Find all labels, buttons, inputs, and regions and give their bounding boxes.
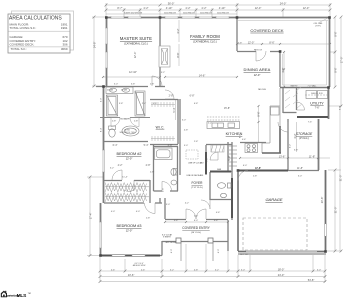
svg-text:STORAGE: STORAGE (296, 132, 313, 136)
svg-text:5'-6": 5'-6" (163, 188, 165, 193)
svg-text:4'-2": 4'-2" (185, 202, 190, 204)
svg-text:8'-6": 8'-6" (257, 111, 261, 116)
svg-text:6'-8": 6'-8" (194, 103, 199, 105)
svg-text:(CATHEDRAL CLG.): (CATHEDRAL CLG.) (124, 41, 148, 45)
svg-text:12'-0": 12'-0" (255, 6, 262, 10)
svg-text:2'-8": 2'-8" (146, 164, 151, 167)
svg-text:5'-0": 5'-0" (194, 215, 199, 217)
svg-text:6'-0": 6'-0" (194, 220, 199, 222)
svg-text:3069: 3069 (61, 47, 68, 51)
svg-text:4'-10": 4'-10" (166, 6, 173, 10)
svg-text:8'-6": 8'-6" (334, 67, 338, 72)
svg-text:36'-0": 36'-0" (168, 1, 175, 5)
svg-text:4'-10": 4'-10" (219, 6, 226, 10)
svg-text:LINE OF CLG ABV.: LINE OF CLG ABV. (188, 162, 204, 165)
svg-text:AREA CALCULATIONS: AREA CALCULATIONS (9, 16, 62, 22)
svg-text:14'-6": 14'-6" (199, 73, 206, 77)
svg-text:1991: 1991 (61, 26, 68, 30)
svg-text:5'-8": 5'-8" (294, 149, 299, 151)
svg-text:(10' CLG.): (10' CLG.) (191, 232, 201, 234)
svg-text:PAN 2480: PAN 2480 (258, 88, 266, 91)
svg-text:5'-2": 5'-2" (215, 269, 220, 271)
svg-text:3'-0": 3'-0" (298, 175, 303, 177)
svg-text:6'-0": 6'-0" (243, 165, 248, 167)
svg-text:5'-0": 5'-0" (184, 145, 189, 147)
svg-text:MLS: MLS (17, 293, 28, 299)
svg-text:9'-4": 9'-4" (340, 106, 342, 111)
svg-text:FOYER: FOYER (192, 181, 204, 185)
svg-text:3'-2": 3'-2" (161, 72, 166, 74)
svg-text:4'-6": 4'-6" (111, 269, 116, 271)
svg-text:3'-0": 3'-0" (317, 269, 322, 271)
svg-text:W.I.C.: W.I.C. (156, 126, 165, 130)
svg-text:3'-2": 3'-2" (110, 167, 115, 169)
svg-text:13'-6": 13'-6" (128, 273, 135, 277)
svg-text:11'-4": 11'-4" (122, 176, 128, 178)
svg-text:12'-0": 12'-0" (254, 73, 261, 77)
svg-text:4'-6": 4'-6" (216, 212, 221, 214)
svg-text:DINING AREA: DINING AREA (244, 67, 271, 72)
svg-text:31'-0": 31'-0" (334, 207, 338, 214)
svg-text:LINE OF DECK ABV.: LINE OF DECK ABV. (187, 174, 204, 177)
svg-text:11'-8": 11'-8" (297, 167, 303, 170)
svg-text:2'-8": 2'-8" (168, 144, 173, 147)
svg-text:3050 WINDOW: 3050 WINDOW (183, 12, 195, 14)
svg-text:2'-8": 2'-8" (253, 175, 258, 177)
svg-text:15'-8": 15'-8" (224, 107, 230, 110)
svg-text:8'-0": 8'-0" (240, 134, 242, 139)
svg-text:6'-8": 6'-8" (190, 94, 195, 97)
svg-text:12'-0": 12'-0" (126, 229, 133, 233)
svg-text:4'-6": 4'-6" (281, 67, 285, 72)
svg-text:17'-8": 17'-8" (255, 167, 261, 170)
svg-text:(CATHEDRAL CLG.): (CATHEDRAL CLG.) (193, 39, 217, 43)
svg-text:3050 WINDOW: 3050 WINDOW (164, 12, 176, 14)
svg-text:16'-7" DR: 16'-7" DR (240, 254, 248, 256)
svg-text:12'-4": 12'-4" (133, 52, 137, 59)
svg-text:SLIDER 3050 WINDOW: SLIDER 3050 WINDOW (124, 12, 143, 14)
svg-text:8'-7": 8'-7" (117, 6, 122, 10)
svg-text:2'-8": 2'-8" (150, 83, 155, 85)
svg-text:306: 306 (62, 42, 67, 46)
svg-text:18'-0": 18'-0" (278, 267, 285, 271)
svg-text:4'-0": 4'-0" (218, 249, 220, 254)
svg-text:13'-6": 13'-6" (279, 154, 286, 158)
svg-text:2'-8": 2'-8" (112, 120, 117, 122)
svg-text:4'-0": 4'-0" (111, 211, 116, 213)
svg-text:5'-0": 5'-0" (153, 103, 158, 105)
svg-text:ANGLED WDW: ANGLED WDW (133, 264, 146, 267)
svg-text:(7'-8" CLG.): (7'-8" CLG.) (191, 187, 203, 189)
svg-text:6'-4": 6'-4" (113, 144, 118, 147)
svg-text:4'-8": 4'-8" (194, 269, 199, 271)
svg-text:UTILITY: UTILITY (310, 101, 324, 105)
svg-text:31'-0": 31'-0" (339, 175, 343, 182)
svg-text:(9' CLG.): (9' CLG.) (299, 137, 309, 140)
svg-text:3050 WINDOW: 3050 WINDOW (200, 12, 212, 14)
svg-text:5'-4": 5'-4" (172, 107, 176, 112)
svg-text:5068: 5068 (217, 169, 221, 171)
svg-text:3'-0": 3'-0" (166, 204, 171, 206)
svg-text:5'-2": 5'-2" (170, 269, 175, 271)
svg-text:24'-0": 24'-0" (278, 273, 285, 277)
svg-text:5'-8": 5'-8" (131, 83, 136, 85)
svg-text:4'-0": 4'-0" (171, 249, 173, 254)
svg-text:6'-2": 6'-2" (290, 144, 292, 149)
svg-text:4'-2": 4'-2" (143, 6, 148, 10)
svg-text:TOTAL S.F.:: TOTAL S.F.: (11, 47, 27, 51)
svg-text:M. BATH: M. BATH (121, 117, 130, 120)
svg-text:2'-8": 2'-8" (150, 171, 155, 173)
svg-text:3050 WINDOW: 3050 WINDOW (217, 12, 229, 14)
svg-text:8'-6": 8'-6" (269, 40, 274, 44)
svg-text:8'-6": 8'-6" (334, 31, 338, 36)
svg-text:4'-6": 4'-6" (141, 269, 146, 271)
svg-text:3'-0": 3'-0" (182, 119, 187, 121)
svg-text:4'-8": 4'-8" (238, 42, 243, 44)
svg-text:17'-4": 17'-4" (89, 213, 93, 220)
svg-text:4'-2": 4'-2" (176, 28, 180, 33)
svg-text:2'-4": 2'-4" (142, 103, 147, 105)
svg-text:4'-0": 4'-0" (136, 211, 141, 213)
svg-text:TOTAL LIVING S.F.:: TOTAL LIVING S.F.: (10, 26, 37, 30)
svg-text:BEDROOM #2: BEDROOM #2 (117, 152, 142, 156)
svg-text:TM: TM (28, 293, 31, 295)
svg-text:(TYP.): (TYP.) (315, 25, 321, 27)
svg-text:4'-8": 4'-8" (214, 220, 219, 222)
svg-text:4'-2": 4'-2" (293, 133, 297, 138)
svg-text:3'-0": 3'-0" (241, 269, 246, 271)
svg-text:GARAGE: GARAGE (265, 197, 282, 202)
svg-text:12'-10": 12'-10" (129, 70, 137, 74)
svg-text:20'-8": 20'-8" (320, 197, 324, 204)
svg-text:11'-8": 11'-8" (309, 154, 315, 158)
svg-text:4'-2": 4'-2" (118, 164, 123, 167)
svg-text:12'-0": 12'-0" (303, 6, 310, 10)
svg-text:7'-0": 7'-0" (207, 158, 209, 163)
svg-text:42 VAN: 42 VAN (107, 88, 114, 91)
svg-text:9'-8": 9'-8" (227, 155, 231, 160)
svg-text:3'-8": 3'-8" (119, 103, 124, 105)
svg-text:MASTER SUITE: MASTER SUITE (120, 36, 152, 41)
svg-text:14'-8": 14'-8" (93, 42, 97, 49)
svg-text:7'-6": 7'-6" (308, 121, 313, 123)
svg-text:2'-8": 2'-8" (169, 94, 174, 97)
svg-text:8'-4": 8'-4" (101, 128, 103, 133)
svg-text:SHELF + ROD: SHELF + ROD (311, 93, 324, 95)
svg-text:24'-0": 24'-0" (280, 1, 287, 5)
svg-text:ART NICHE: ART NICHE (166, 241, 177, 244)
svg-text:3'-0": 3'-0" (114, 83, 119, 85)
svg-text:COVERED DECK:: COVERED DECK: (10, 42, 35, 46)
svg-text:PATIO DR: PATIO DR (254, 48, 263, 51)
svg-text:17'-0": 17'-0" (340, 57, 344, 64)
svg-text:4'-2": 4'-2" (185, 6, 190, 10)
svg-text:2'-8": 2'-8" (194, 141, 199, 143)
svg-text:4'-8": 4'-8" (184, 129, 189, 131)
svg-text:12'-0": 12'-0" (248, 40, 255, 44)
svg-text:7'-6": 7'-6" (315, 107, 320, 110)
svg-text:FAMILY ROOM: FAMILY ROOM (190, 34, 220, 39)
svg-text:2'-8": 2'-8" (134, 120, 139, 122)
svg-text:7'-6" WALL: 7'-6" WALL (308, 84, 317, 87)
svg-text:42 VAN: 42 VAN (121, 88, 128, 91)
svg-text:12'-0": 12'-0" (126, 157, 133, 161)
svg-text:4'-6": 4'-6" (242, 139, 247, 141)
svg-text:PANTRY: PANTRY (290, 84, 298, 87)
svg-text:2'-8": 2'-8" (146, 218, 151, 220)
svg-text:4'-8": 4'-8" (174, 220, 179, 222)
svg-text:WHIRLPOOL TUB: WHIRLPOOL TUB (120, 132, 136, 134)
svg-text:8' ENTRY: 8' ENTRY (163, 237, 171, 239)
svg-text:54'-8": 54'-8" (308, 278, 315, 282)
svg-text:6'-0": 6'-0" (101, 98, 103, 103)
svg-text:COVERED DECK: COVERED DECK (250, 28, 283, 33)
svg-text:4'-2": 4'-2" (201, 6, 206, 10)
svg-text:8'-6": 8'-6" (176, 52, 180, 57)
svg-text:2'-2": 2'-2" (208, 122, 213, 124)
svg-text:COVERED ENTRY: COVERED ENTRY (182, 226, 210, 230)
svg-text:BEDROOM #3: BEDROOM #3 (117, 224, 142, 228)
svg-text:5'-4": 5'-4" (144, 144, 149, 147)
